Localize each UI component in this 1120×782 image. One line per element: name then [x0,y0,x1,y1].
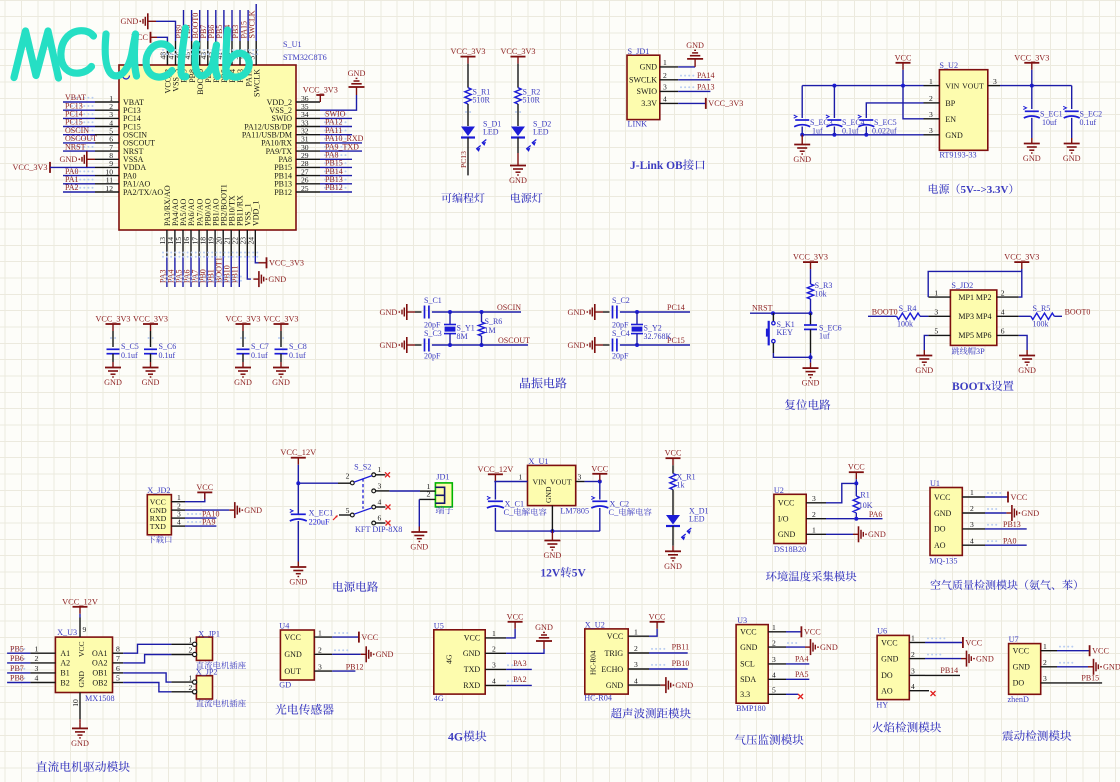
switch pin5 stub [339,514,350,516]
wire cap EC1 drop [1031,86,1033,109]
svg-text:2: 2 [772,638,776,647]
svg-text:3: 3 [911,667,915,676]
svg-text:TXD: TXD [464,665,481,674]
MCU pin 38 stub [247,41,249,65]
wire MP5 to ground [924,335,928,350]
caption DC motor driver module [36,761,47,771]
power VCC_12V flag left [488,473,503,475]
svg-text:GND: GND [380,308,398,317]
MCU pin 30 stub [296,150,320,152]
caption programmable LED [441,193,451,203]
svg-text:GND: GND [272,378,290,387]
wire net PB14 [925,674,960,676]
wire pin2 to ground [185,509,229,511]
MCU pin 16 stub [190,230,192,256]
ground below S_C6 [150,362,152,368]
svg-text:GND: GND [778,530,796,539]
dot strips above MCU [162,49,164,51]
wire X_C2 drop [599,482,601,500]
wire net PB6 [7,662,30,664]
wire LED to net PC13 [467,138,469,176]
caption barometric module [735,734,746,745]
wire EC1 to ground [297,521,299,562]
svg-text:220uF: 220uF [309,518,330,527]
wire net PA4 [174,256,176,287]
wire net PB7 [207,10,209,41]
power VCC flag at MCU pin 48 [150,32,152,43]
MCU pin 3 stub [95,117,119,119]
wire X_D1 to ground [672,526,674,546]
svg-text:GND: GND [945,131,963,140]
svg-text:GND: GND [380,341,398,350]
svg-text:1: 1 [318,628,322,637]
svg-text:3: 3 [578,473,582,482]
svg-text:J-Link OB: J-Link OB [630,160,683,172]
capacitor X_C2 [592,500,607,502]
svg-text:2: 2 [492,645,496,654]
wire VCC_3V3 to pin9 [50,166,95,168]
wire net PA6 [190,256,192,287]
caption power 5V to 3.3V [929,184,938,194]
power VCC above X_JD2 [197,491,212,493]
driver X_U3 body MX1508 [55,637,112,692]
MCU pin 44 stub [199,41,201,65]
svg-text:5V-->3.3V: 5V-->3.3V [961,184,1009,196]
svg-text:VCC: VCC [591,464,608,473]
svg-text:PA4: PA4 [795,654,809,663]
svg-text:4: 4 [663,95,667,104]
wire net PA11 [320,134,352,136]
svg-text:X_U2: X_U2 [585,621,605,630]
ground right of X_JD2 [229,509,235,511]
svg-text:3: 3 [318,662,322,671]
svg-text:2: 2 [970,504,974,513]
svg-text:MP2: MP2 [976,293,992,302]
svg-text:2: 2 [1001,288,1005,297]
svg-text:GND: GND [793,155,811,164]
svg-text:VCC: VCC [804,628,821,637]
power VCC right of U7 [1089,645,1091,656]
MCU pin 48 stub [166,41,168,65]
wire JD1 pin1 to ground [678,66,695,68]
svg-text:S_JD2: S_JD2 [951,281,973,290]
svg-text:100k: 100k [897,320,913,329]
svg-text:VCC_3V3: VCC_3V3 [269,259,304,268]
svg-text:VCC_3V3: VCC_3V3 [12,163,47,172]
svg-text:VCC: VCC [848,463,865,472]
wire U4 pin1 to VCC [332,636,359,638]
MCU pin 4 stub [95,126,119,128]
wire net PB12 [320,191,352,193]
svg-text:S_C3: S_C3 [424,329,442,338]
svg-text:2: 2 [663,71,667,80]
wire net PB15 [320,166,352,168]
svg-text:VCC: VCC [284,633,300,642]
S_JD2 row 3 stubs [928,334,950,336]
power VCC_3V3 flag for S_D1 [461,56,476,58]
svg-text:2: 2 [189,646,193,655]
ground right of U7 [1088,666,1094,668]
svg-text:GND: GND [934,509,952,518]
svg-text:4: 4 [634,676,638,685]
svg-text:HC-R04: HC-R04 [584,694,612,703]
svg-text:4: 4 [970,536,974,545]
wire 12V down [297,465,299,484]
wire net PA0 [63,175,95,177]
MCU pin 43 stub [207,41,209,65]
wire net PB8 [191,10,193,41]
wire to cap S_C8 [280,331,282,347]
wire net PB5 [7,652,30,654]
svg-text:1: 1 [812,526,816,535]
svg-text:S_U1: S_U1 [283,40,302,49]
MCU pin 25 stub [296,191,320,193]
svg-text:GND: GND [463,649,481,658]
power VCC right of U3 [800,626,802,637]
wire OSCIN left segment [415,311,422,313]
svg-text:PB8: PB8 [10,674,24,683]
resistor X_R1 [670,474,676,490]
model 3P jumper label [952,347,960,354]
svg-text:OSCOUT: OSCOUT [498,336,530,345]
wire OSCOUT left segment [415,344,422,346]
svg-text:U5: U5 [434,621,444,630]
svg-text:4G: 4G [434,694,444,703]
wire flag to resistor S_R2 [517,64,519,88]
svg-text:R1: R1 [860,491,869,500]
MCU pin 7 stub [95,150,119,152]
svg-text:BMP180: BMP180 [736,704,766,713]
wire VCC pin3 up [826,483,856,502]
wire pin2 to ground [985,512,1006,514]
svg-text:PB5: PB5 [10,644,24,653]
ground below EC3 [801,135,803,139]
ground right of U6 [961,658,967,660]
caption power circuit [333,581,343,591]
svg-text:MP6: MP6 [976,331,992,340]
svg-text:I/O: I/O [778,515,789,524]
wire R5 to BOOT0 right [1054,315,1062,317]
X_U1 GND pin down [551,506,553,531]
MCU pin 10 stub [95,175,119,177]
svg-text:PA2: PA2 [513,675,527,684]
MCU pin 45 stub [191,41,193,65]
svg-text:3: 3 [934,308,938,317]
svg-text:PB6: PB6 [10,654,24,663]
caption photoelectric sensor [275,704,286,715]
svg-text:1: 1 [772,623,776,632]
svg-text:5: 5 [934,327,938,336]
svg-text:510R: 510R [473,96,491,105]
svg-text:GND: GND [675,681,693,690]
switch S_K1 KEY [772,313,774,321]
svg-text:0.1uf: 0.1uf [159,351,176,360]
svg-text:VCC_3V3: VCC_3V3 [450,47,485,56]
capacitor X_EC1 220uF [297,483,299,514]
ground left of S_C3 [407,344,415,346]
crystal S_Y1 [449,312,451,325]
svg-text:GND: GND [142,378,160,387]
wire net PB6 [215,10,217,41]
svg-text:GND: GND [868,530,886,539]
svg-text:2: 2 [318,646,322,655]
power VCC_3V3 flag at output [1024,62,1039,64]
svg-text:0.1uf: 0.1uf [251,351,268,360]
svg-text:VCC: VCC [77,641,86,657]
MCUclub logo [14,31,59,78]
wire net PA10_RXD [320,142,362,144]
wire net PB13 [985,528,1027,530]
inverted ground at pin 35 [356,87,358,95]
svg-text:ECHO: ECHO [601,665,623,674]
wire net PB9 [183,10,185,41]
svg-text:0.1uf: 0.1uf [289,351,306,360]
MCU U1 body STM32C8T6 [119,65,296,230]
svg-text:12V: 12V [540,568,561,580]
JD1 pin contacts [435,486,444,488]
svg-text:VCC_3V3: VCC_3V3 [263,315,298,324]
wire net NRST [750,312,811,314]
svg-text:OB2: OB2 [92,678,107,687]
MCU pin 29 stub [296,158,320,160]
label DC motor socket 2 [196,699,204,706]
svg-text:6: 6 [1001,327,1005,336]
svg-text:2: 2 [189,683,193,692]
svg-text:1: 1 [970,488,974,497]
svg-text:zhenD: zhenD [1008,695,1029,704]
power VCC flag at 5V out [592,473,607,475]
capacitor S_C2 [612,306,614,319]
wire net VBAT [63,101,95,103]
MCU pin 2 stub [95,109,119,111]
svg-text:GND: GND [121,17,139,26]
X mark on switch pin6 [386,521,391,526]
svg-text:X_JD2: X_JD2 [147,486,170,495]
ground left of S_C4 [595,344,603,346]
capacitor S_EC4 [827,119,841,121]
S_U2 pin EN stub [924,118,940,120]
connector S_JD1 body [627,55,660,119]
wire MP6 to ground [1019,335,1027,350]
ground below EC2 [1071,138,1073,144]
svg-text:NRST: NRST [752,304,773,313]
svg-text:A2: A2 [60,659,70,668]
svg-text:BOOT0: BOOT0 [1065,308,1091,317]
switch S_S2 pole 4-5 [372,505,376,509]
svg-text:PB13: PB13 [1003,520,1021,529]
wire net PA3 [506,668,532,670]
caption temperature module [766,571,777,581]
svg-text:8M: 8M [457,332,468,341]
wire resistor to LED S_D2 [517,104,519,126]
wire LED to ground [517,138,519,154]
svg-text:1: 1 [35,644,39,653]
capacitor S_EC6 [810,313,812,325]
wire net PB7 [7,672,30,674]
LED S_D1 [461,127,475,137]
svg-text:PA13: PA13 [697,83,715,92]
MCU pin 18 stub [206,230,208,256]
svg-text:PC14: PC14 [667,303,685,312]
svg-text:5: 5 [772,686,776,695]
wire to cap S_C7 [242,331,244,347]
wire VCC_3V3 loop to MP1/MP2 [928,269,1022,297]
wire net PB12 [332,670,355,672]
svg-text:GND: GND [544,486,553,503]
ground below S_C8 [280,362,282,368]
wire net PA12 [320,126,352,128]
svg-text:VCC_12V: VCC_12V [62,597,98,606]
wire 12V to pin 9 [79,614,81,618]
svg-text:DO: DO [934,525,946,534]
wire net PB11 [238,256,240,287]
svg-text:GND: GND [509,176,527,185]
MCU pin 24 stub [254,230,256,256]
svg-text:PA3: PA3 [513,659,527,668]
svg-text:S_R5: S_R5 [1033,304,1051,313]
svg-text:PB12: PB12 [346,662,364,671]
MCU pin 32 stub [296,134,320,136]
sensor U6 body HY [877,635,909,699]
svg-text:9: 9 [83,625,87,634]
power VCC_3V3 flag above S_C7 [236,323,251,325]
svg-text:S_C7: S_C7 [251,342,269,351]
svg-text:GND: GND [284,650,302,659]
svg-text:3P: 3P [976,347,985,356]
wire net OSCOUT [63,142,95,144]
svg-text:MQ-135: MQ-135 [929,557,957,566]
svg-text:4: 4 [772,671,776,680]
svg-text:3: 3 [634,660,638,669]
svg-text:LED: LED [533,128,549,137]
wire net PB1 [214,256,216,287]
svg-text:GND: GND [268,275,286,284]
wire net PB10 [649,668,688,670]
svg-text:GND: GND [568,308,586,317]
svg-text:PA14: PA14 [697,71,715,80]
svg-text:VCC: VCC [649,612,666,621]
MCU pin 35 stub [296,109,320,111]
ground above S_JD1 [694,59,696,67]
ground below S_C5 [112,362,114,368]
caption crystal circuit [520,378,530,389]
svg-text:20pF: 20pF [424,352,441,361]
svg-text:VCC: VCC [1092,647,1109,656]
svg-text:4: 4 [492,677,496,686]
MCU pin 36 stub [296,101,320,103]
wire net PB8 [7,682,30,684]
svg-text:GND: GND [976,654,994,663]
svg-text:510R: 510R [523,96,541,105]
power VCC_3V3 above jumper [1014,261,1029,263]
svg-text:U6: U6 [877,627,887,636]
power VCC_3V3 flag above S_C6 [143,323,158,325]
svg-text:PB14: PB14 [940,666,958,675]
wire net PA0 [985,544,1027,546]
svg-text:GND: GND [289,578,307,587]
svg-text:U3: U3 [737,616,747,625]
svg-text:VCC_3V3: VCC_3V3 [1014,53,1049,62]
caption flame module [872,722,883,733]
wire X_U2 pin1 to VCC [649,629,657,636]
svg-text:VCC: VCC [665,449,682,458]
power VCC right of U6 [962,637,964,648]
MCU pin 9 stub [95,166,119,168]
ground left of S_C1 [407,311,415,313]
wire cap EC4 drop [833,86,835,118]
svg-text:4: 4 [1001,308,1005,317]
wire pin35 to GND [320,95,357,110]
svg-text:GND: GND [568,341,586,350]
X mark on U6 pin4 [931,691,936,696]
svg-text:VCC_3V3: VCC_3V3 [133,315,168,324]
svg-text:GND: GND [664,562,682,571]
svg-text:PB11: PB11 [672,643,690,652]
svg-text:1: 1 [929,77,933,86]
svg-text:GND: GND [915,366,933,375]
svg-text:VCC: VCC [778,499,794,508]
svg-text:20pF: 20pF [612,352,629,361]
svg-text:HY: HY [876,701,888,710]
svg-text:SWIO: SWIO [637,87,658,96]
svg-text:8: 8 [116,644,120,653]
svg-text:4: 4 [177,517,181,526]
svg-text:GND: GND [535,623,553,632]
svg-text:VCC: VCC [607,632,623,641]
svg-text:GND: GND [606,681,624,690]
svg-text:SDA: SDA [740,675,756,684]
ground below X_U3 [79,723,81,729]
svg-text:VCC: VCC [934,493,950,502]
MCU pin 31 stub [296,142,320,144]
wire net PA2 [506,684,532,686]
power VCC_3V3 right of S_JD1 [705,98,707,109]
svg-text:TXD: TXD [150,522,166,531]
wire net PB11 [649,652,688,654]
wire VCC to pin 48 [151,36,158,38]
wire U6 pin1 to VCC [925,642,963,644]
wire resistor to LED S_D1 [467,104,469,126]
svg-text:1uf: 1uf [812,127,823,136]
ground right of U4 [361,653,367,655]
svg-text:DO: DO [1013,679,1025,688]
svg-text:LM7805: LM7805 [560,507,589,516]
wire cap to ground [150,354,152,362]
ground at MCU pin 47 [148,20,156,22]
ground at MCU pin 23 [253,278,259,280]
svg-text:0.022uf: 0.022uf [872,127,897,136]
sensor U7 body zhenD [1009,644,1041,695]
power VCC above X_U2 [650,621,665,623]
svg-text:GND: GND [1023,154,1041,163]
ground right of X_U2 [660,684,666,686]
wire net PB10 [230,256,232,287]
wire pin24 VDD_1 to VCC_3V3 [255,256,258,263]
MCU pin 28 stub [296,166,320,168]
svg-text:32.768K: 32.768K [644,332,672,341]
MCU pin 6 stub [95,142,119,144]
svg-text:2: 2 [911,650,915,659]
svg-text:PB10: PB10 [672,659,690,668]
wire net PA9 [185,525,216,527]
wire GND bus [802,134,923,136]
svg-text:LED: LED [689,515,705,524]
svg-text:2: 2 [346,471,350,480]
wire net PC15 [63,126,95,128]
svg-text:X_U1: X_U1 [529,457,549,466]
svg-text:3: 3 [663,83,667,92]
svg-text:1: 1 [934,288,938,297]
